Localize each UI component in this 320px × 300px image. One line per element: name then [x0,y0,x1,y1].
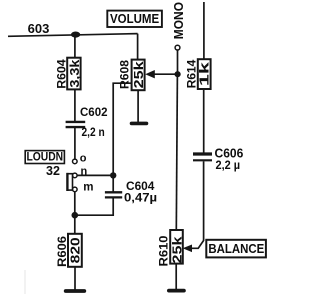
terminal MONO (open circle) [175,45,180,50]
svg-text:25k: 25k [131,60,146,88]
svg-text:VOLUME: VOLUME [110,12,159,27]
label box BALANCE [206,240,266,258]
capacitor C602 2,2n [66,105,108,139]
svg-text:R604: R604 [56,59,69,89]
svg-text:3,3k: 3,3k [67,59,82,88]
wire: input 603 horizontal [8,34,138,37]
svg-text:603: 603 [28,21,50,36]
wire: junction to R604 top [74,34,76,58]
svg-text:R610: R610 [157,236,170,267]
switch contact n [73,165,88,177]
resistor R614 1k [186,59,212,89]
wire: C602 to switch contact o [74,128,76,159]
wire: R606 to ground [74,267,76,291]
ground below R610 [169,289,184,293]
switch contact o [73,153,87,165]
label box VOLUME [107,11,162,27]
wire: node A to R606 top [74,215,76,234]
wire: node A to C604 bottom [75,198,113,215]
potentiometer R610 25k (balance) [157,230,184,267]
junction node A (m / C604 / R606) [72,212,79,219]
svg-text:C602: C602 [80,105,108,119]
svg-text:2,2 µ: 2,2 µ [216,158,241,172]
svg-text:0,47µ: 0,47µ [124,191,157,205]
svg-text:1k: 1k [197,61,212,86]
ground below R606 [66,289,85,293]
resistor R604 3,3k [56,58,82,90]
svg-text:R614: R614 [186,59,199,88]
svg-text:MONO: MONO [172,2,187,39]
wire: R608 to ground [137,90,139,122]
wiper arrow of R608 (from MONO line) [145,70,177,78]
wire: C606 down to R610 wiper [192,161,204,248]
wire: C604 top to node B [112,175,114,192]
wire: main wire down to R608 top [137,34,139,60]
svg-text:25k: 25k [169,236,184,264]
wire: node B up to R608 loudness tap [113,83,132,175]
capacitor C606 2,2u [193,146,243,172]
wire: R604 to C602 [74,89,76,121]
svg-text:R606: R606 [56,235,69,267]
svg-text:820: 820 [68,237,83,263]
potentiometer R608 25k (volume) [118,59,145,90]
switch armature (slider bridging n and m) [67,173,72,191]
svg-text:m: m [83,182,93,194]
svg-text:BALANCE: BALANCE [208,241,264,256]
junction 603/R604 [71,31,80,37]
wire: R610 to ground [175,264,177,290]
wire: contact n to node B [77,174,113,176]
svg-text:LOUDN: LOUDN [26,151,63,164]
svg-text:o: o [80,153,87,165]
junction: wiper / MONO line [175,71,181,77]
svg-text:R608: R608 [118,59,131,89]
ground below R608 [132,122,147,126]
label box LOUDN [25,151,64,164]
wire: MONO terminal to junction [177,50,179,74]
capacitor C604 0,47u [105,179,157,205]
wire: contact m down to node A [74,192,76,216]
wire: feed to R614 from top [203,2,205,59]
junction node B (n / tap) [110,172,116,178]
svg-text:32: 32 [46,164,60,178]
resistor R606 820 [56,234,83,267]
wiper arrow of R610 (balance) [183,245,192,253]
wire: MONO line down to R610 top [176,74,177,230]
wire: R614 to C606 [203,89,205,153]
svg-text:2,2 n: 2,2 n [82,125,105,139]
switch contact m [73,182,94,194]
